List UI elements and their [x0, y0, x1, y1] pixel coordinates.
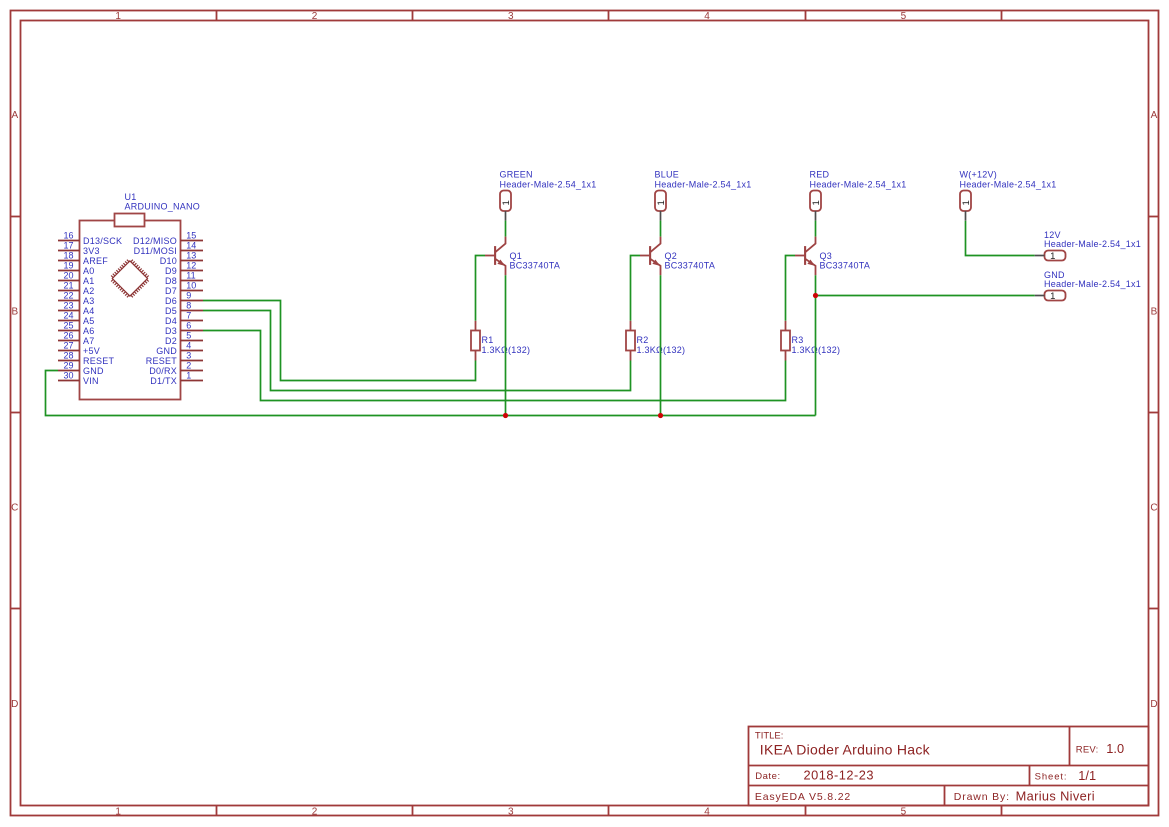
svg-text:Q2: Q2 — [665, 251, 678, 261]
svg-text:1: 1 — [501, 200, 512, 205]
svg-text:1: 1 — [961, 200, 972, 205]
svg-text:A5: A5 — [83, 316, 95, 326]
Q1 collector pin — [495, 237, 505, 253]
Q2 collector pin — [650, 237, 660, 253]
Q2 base bar — [649, 246, 651, 265]
connector RED header — [810, 170, 907, 221]
Q2 emitter arrow — [652, 260, 660, 266]
svg-text:13: 13 — [186, 250, 196, 260]
svg-text:A4: A4 — [83, 306, 95, 316]
wire W(+12V) to 12V header — [966, 221, 1035, 256]
svg-text:C: C — [11, 503, 18, 514]
svg-text:GREEN: GREEN — [500, 170, 533, 180]
U1 body — [80, 221, 181, 400]
R1 body — [471, 331, 480, 351]
U1 chip glyph — [111, 260, 149, 298]
column ticks bottom — [216, 806, 218, 816]
Q1 base pin — [485, 255, 494, 257]
RED header body — [810, 191, 821, 212]
R1 pin 1 lead — [475, 321, 477, 331]
svg-text:15: 15 — [186, 230, 196, 240]
svg-text:26: 26 — [63, 330, 73, 340]
svg-text:BC33740TA: BC33740TA — [510, 261, 561, 271]
svg-text:A3: A3 — [83, 296, 95, 306]
svg-text:Q3: Q3 — [820, 251, 833, 261]
svg-text:AREF: AREF — [83, 256, 108, 266]
RED pin 1 lead — [815, 211, 817, 221]
svg-text:GND: GND — [83, 366, 104, 376]
svg-text:2018-12-23: 2018-12-23 — [804, 768, 874, 783]
junction Q3 emitter / GND header wire — [813, 293, 818, 298]
svg-text:D12/MISO: D12/MISO — [133, 236, 177, 246]
BLUE pin 1 lead — [660, 211, 662, 221]
svg-text:Drawn By:: Drawn By: — [954, 791, 1010, 803]
Q3 emitter pin — [805, 259, 815, 275]
svg-text:R3: R3 — [792, 335, 804, 345]
svg-text:C: C — [1150, 503, 1157, 514]
svg-text:3: 3 — [508, 11, 514, 22]
svg-text:2: 2 — [186, 360, 191, 370]
svg-text:D10: D10 — [160, 256, 177, 266]
svg-text:A: A — [1151, 110, 1158, 121]
svg-text:Header-Male-2.54_1x1: Header-Male-2.54_1x1 — [1044, 239, 1141, 249]
svg-text:Q1: Q1 — [510, 251, 523, 261]
Q3 base pin — [795, 255, 804, 257]
svg-text:2: 2 — [312, 11, 318, 22]
wire GND bus from U1 pin29 — [46, 371, 816, 416]
svg-text:R1: R1 — [482, 335, 494, 345]
svg-text:24: 24 — [63, 310, 73, 320]
svg-text:6: 6 — [186, 320, 191, 330]
junction Q2 emitter / GND bus — [658, 413, 663, 418]
RED pin number 1 — [811, 200, 822, 205]
svg-text:Header-Male-2.54_1x1: Header-Male-2.54_1x1 — [1044, 279, 1141, 289]
wire Q2 base to R2 — [631, 256, 641, 321]
svg-text:A1: A1 — [83, 276, 95, 286]
svg-text:8: 8 — [186, 300, 191, 310]
svg-text:RESET: RESET — [146, 356, 178, 366]
Q3 emitter arrow — [807, 260, 815, 266]
svg-text:Date:: Date: — [755, 771, 780, 782]
wire R3 to arduino pin — [203, 331, 786, 401]
W(+12V) pin 1 lead — [965, 211, 967, 221]
connector W(+12V) header — [960, 170, 1057, 221]
svg-text:23: 23 — [63, 300, 73, 310]
svg-text:27: 27 — [63, 340, 73, 350]
svg-text:A: A — [11, 110, 18, 121]
row ticks right — [1149, 216, 1159, 218]
R3 pin 2 lead — [785, 351, 787, 361]
GREEN pin number 1 — [501, 200, 512, 205]
svg-text:2: 2 — [312, 806, 318, 817]
svg-text:25: 25 — [63, 320, 73, 330]
svg-text:3V3: 3V3 — [83, 246, 100, 256]
U1 pins right — [181, 240, 204, 242]
svg-text:D1/TX: D1/TX — [150, 376, 177, 386]
svg-text:12: 12 — [186, 260, 196, 270]
wire R2 to arduino pin — [203, 311, 631, 391]
GND pin 1 lead — [1035, 295, 1045, 297]
svg-text:1: 1 — [811, 200, 822, 205]
svg-text:IKEA Dioder Arduino Hack: IKEA Dioder Arduino Hack — [760, 742, 931, 758]
svg-text:20: 20 — [63, 270, 73, 280]
svg-text:10: 10 — [186, 280, 196, 290]
Q1 emitter pin — [495, 259, 505, 275]
svg-text:28: 28 — [63, 350, 73, 360]
svg-text:1: 1 — [1050, 291, 1055, 302]
svg-text:5: 5 — [901, 11, 907, 22]
wire Q1 base to R1 — [476, 256, 486, 321]
svg-text:A7: A7 — [83, 336, 95, 346]
wire Q1 emitter to gnd bus — [505, 275, 507, 415]
junction Q1 emitter / GND bus — [503, 413, 508, 418]
wire Q3 base to R3 — [786, 256, 796, 321]
svg-text:B: B — [1151, 306, 1158, 317]
svg-text:18: 18 — [63, 250, 73, 260]
connector BLUE header — [655, 170, 752, 221]
U1 usb notch — [115, 214, 145, 227]
svg-text:GND: GND — [156, 346, 177, 356]
svg-text:Header-Male-2.54_1x1: Header-Male-2.54_1x1 — [655, 179, 752, 189]
column ticks top — [216, 11, 218, 21]
svg-text:D6: D6 — [165, 296, 177, 306]
GREEN pin 1 lead — [505, 211, 507, 221]
Q2 emitter pin — [650, 259, 660, 275]
wire Q3 emitter tee to GND header — [816, 295, 1035, 297]
svg-text:Sheet:: Sheet: — [1035, 772, 1068, 783]
R2 body — [626, 331, 635, 351]
svg-text:D0/RX: D0/RX — [149, 366, 177, 376]
svg-text:1/1: 1/1 — [1078, 768, 1096, 783]
row ticks left — [11, 216, 21, 218]
wire R1 to arduino pin — [203, 301, 476, 381]
svg-text:A2: A2 — [83, 286, 95, 296]
transistor Q1 BC33740TA — [485, 237, 560, 276]
svg-text:5: 5 — [186, 330, 191, 340]
svg-text:Header-Male-2.54_1x1: Header-Male-2.54_1x1 — [500, 179, 597, 189]
svg-text:D8: D8 — [165, 276, 177, 286]
svg-text:U1: U1 — [125, 192, 137, 202]
svg-text:TITLE:: TITLE: — [755, 730, 784, 741]
U1 pins left — [58, 240, 80, 242]
Q2 base pin — [640, 255, 649, 257]
svg-text:7: 7 — [186, 310, 191, 320]
svg-text:21: 21 — [63, 280, 73, 290]
svg-text:29: 29 — [63, 360, 73, 370]
svg-text:BLUE: BLUE — [655, 170, 680, 180]
GREEN header body — [500, 191, 511, 212]
connector GREEN header — [500, 170, 597, 221]
svg-text:BC33740TA: BC33740TA — [665, 261, 716, 271]
wire header to Q2 collector — [660, 221, 662, 237]
GND header body — [1045, 291, 1066, 301]
svg-text:D13/SCK: D13/SCK — [83, 236, 122, 246]
transistor Q3 BC33740TA — [795, 237, 870, 276]
R3 pin 1 lead — [785, 321, 787, 331]
svg-text:Header-Male-2.54_1x1: Header-Male-2.54_1x1 — [960, 179, 1057, 189]
R2 pin 2 lead — [630, 351, 632, 361]
svg-text:VIN: VIN — [83, 376, 99, 386]
svg-text:D11/MOSI: D11/MOSI — [134, 246, 177, 256]
svg-text:14: 14 — [186, 240, 196, 250]
svg-text:1: 1 — [115, 11, 121, 22]
svg-text:16: 16 — [63, 230, 73, 240]
svg-text:D: D — [1150, 699, 1157, 710]
svg-text:4: 4 — [704, 806, 710, 817]
Q3 base bar — [804, 246, 806, 265]
transistor Q2 BC33740TA — [640, 237, 715, 276]
svg-text:19: 19 — [63, 260, 73, 270]
svg-text:3: 3 — [186, 350, 191, 360]
resistor R3 1.3K — [781, 321, 840, 361]
12V header body — [1045, 251, 1066, 261]
svg-text:EasyEDA V5.8.22: EasyEDA V5.8.22 — [755, 791, 851, 803]
R3 body — [781, 331, 790, 351]
svg-text:1: 1 — [656, 200, 667, 205]
title block — [749, 727, 1149, 806]
svg-text:Marius Niveri: Marius Niveri — [1016, 788, 1095, 803]
W(+12V) header body — [960, 191, 971, 212]
ic U1 ARDUINO_NANO — [58, 192, 203, 400]
wire header to Q3 collector — [815, 221, 817, 237]
svg-text:D: D — [11, 699, 18, 710]
resistor R1 1.3K — [471, 321, 530, 361]
svg-text:11: 11 — [186, 270, 195, 280]
Q1 emitter arrow — [497, 260, 505, 266]
svg-text:REV:: REV: — [1076, 745, 1099, 756]
svg-text:D3: D3 — [165, 326, 177, 336]
svg-text:ARDUINO_NANO: ARDUINO_NANO — [125, 202, 201, 212]
svg-text:1.0: 1.0 — [1106, 741, 1124, 756]
R1 pin 2 lead — [475, 351, 477, 361]
W(+12V) pin number 1 — [961, 200, 972, 205]
svg-text:5: 5 — [901, 806, 907, 817]
svg-text:22: 22 — [63, 290, 73, 300]
svg-text:3: 3 — [508, 806, 514, 817]
connector 12V header — [1035, 230, 1141, 262]
BLUE header body — [655, 191, 666, 212]
svg-text:RED: RED — [810, 170, 830, 180]
R2 pin 1 lead — [630, 321, 632, 331]
svg-text:A0: A0 — [83, 266, 95, 276]
svg-text:R2: R2 — [637, 335, 649, 345]
wire Q2 emitter to gnd bus — [660, 275, 662, 415]
svg-text:RESET: RESET — [83, 356, 115, 366]
svg-text:D5: D5 — [165, 306, 177, 316]
svg-text:D9: D9 — [165, 266, 177, 276]
svg-text:D7: D7 — [165, 286, 177, 296]
svg-text:4: 4 — [186, 340, 191, 350]
BLUE pin number 1 — [656, 200, 667, 205]
wire Q3 emitter to gnd bus — [815, 275, 817, 415]
svg-text:17: 17 — [63, 240, 73, 250]
svg-text:30: 30 — [63, 370, 73, 380]
svg-text:1: 1 — [1050, 251, 1055, 262]
Q1 base bar — [494, 246, 496, 265]
svg-text:1: 1 — [186, 370, 191, 380]
svg-text:BC33740TA: BC33740TA — [820, 261, 871, 271]
12V pin 1 lead — [1035, 255, 1045, 257]
svg-text:1: 1 — [115, 806, 121, 817]
svg-text:Header-Male-2.54_1x1: Header-Male-2.54_1x1 — [810, 179, 907, 189]
svg-text:D4: D4 — [165, 316, 177, 326]
svg-text:4: 4 — [704, 11, 710, 22]
svg-text:D2: D2 — [165, 336, 177, 346]
connector GND header — [1035, 270, 1141, 302]
resistor R2 1.3K — [626, 321, 685, 361]
Q3 collector pin — [805, 237, 815, 253]
svg-text:9: 9 — [186, 290, 191, 300]
svg-text:+5V: +5V — [83, 346, 100, 356]
svg-text:A6: A6 — [83, 326, 95, 336]
wire header to Q1 collector — [505, 221, 507, 237]
svg-text:W(+12V): W(+12V) — [960, 170, 998, 180]
svg-text:B: B — [11, 306, 18, 317]
